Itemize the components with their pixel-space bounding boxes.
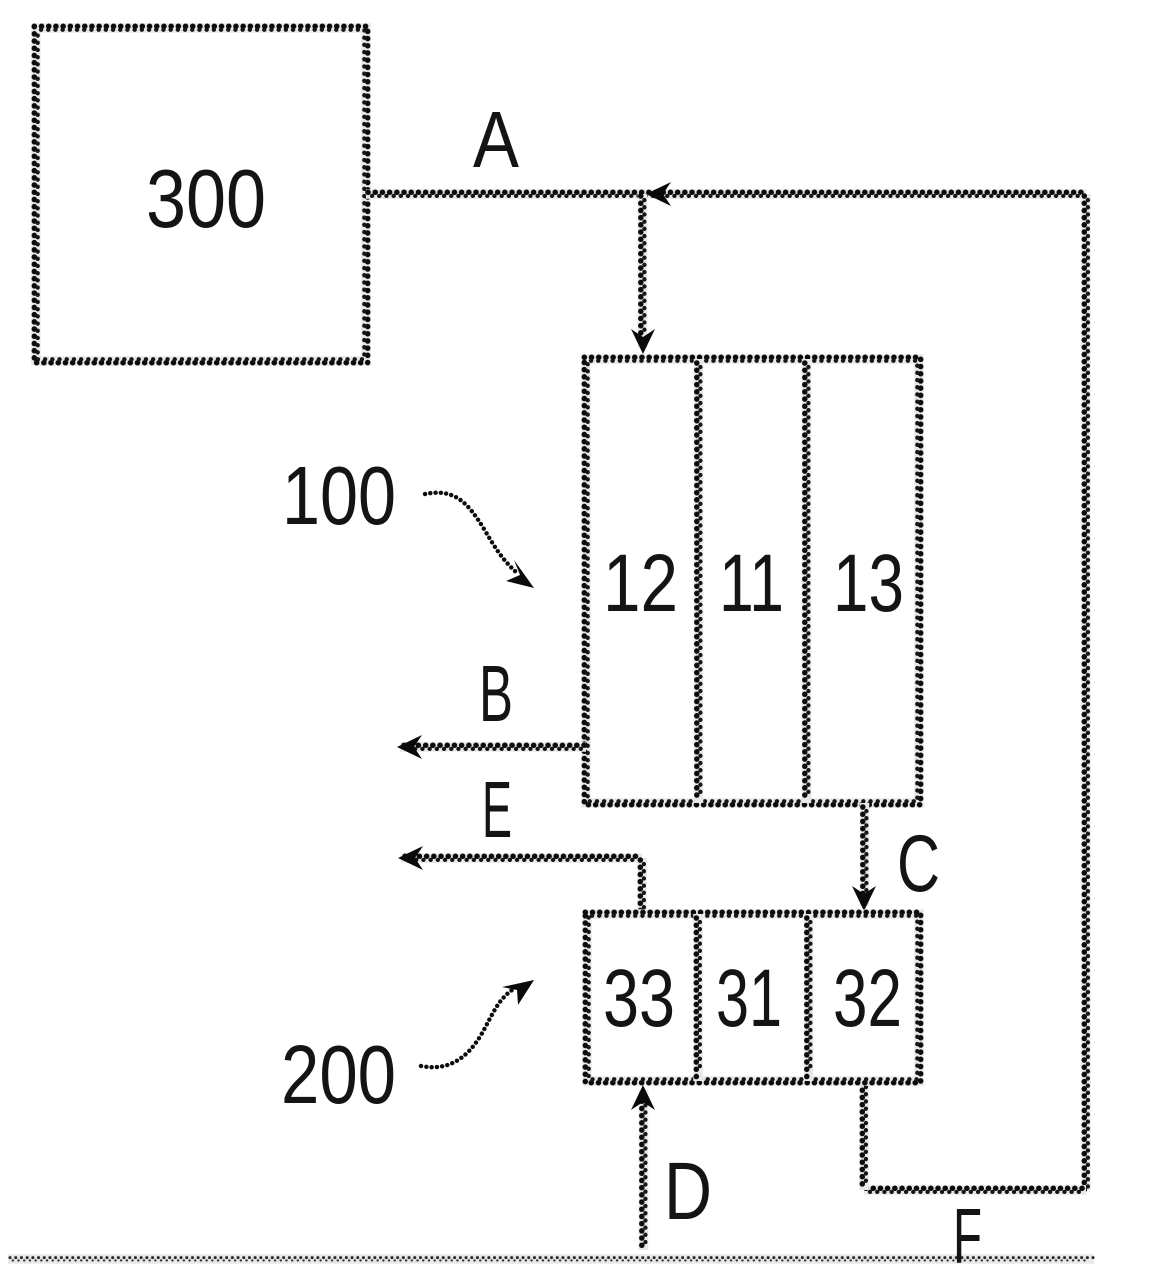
arrowhead down into box 100 [631, 329, 655, 354]
arrowhead of 100 leader [506, 560, 534, 588]
arrowhead left wire E [398, 846, 423, 870]
svg-text:12: 12 [603, 538, 678, 629]
box 100 outer [584, 357, 920, 804]
wire C vertical from box 100 down to box 200 [863, 803, 867, 906]
svg-text:32: 32 [833, 953, 902, 1044]
box 200 divider 2 [807, 914, 811, 1081]
svg-text:31: 31 [716, 953, 782, 1044]
wire F vertical from box 200 bottom [862, 1081, 866, 1190]
svg-text:A: A [473, 95, 520, 184]
svg-text:33: 33 [603, 953, 675, 1044]
svg-text:E: E [482, 765, 512, 854]
svg-text:B: B [479, 649, 513, 738]
svg-text:D: D [664, 1146, 712, 1237]
wire E horizontal [401, 856, 642, 860]
svg-text:300: 300 [146, 152, 266, 245]
wire A horizontal from box 300 to right vertical [366, 192, 1086, 196]
arrowhead left wire B [397, 735, 422, 759]
box 100 divider 1 [697, 359, 701, 803]
svg-text:100: 100 [282, 449, 396, 542]
arrowhead left on wire A at junction [646, 182, 671, 206]
wire E vertical elbow down to box 200 [640, 858, 644, 914]
box 100 divider 2 [805, 359, 809, 803]
wire right vertical (feedback) [1084, 194, 1088, 1190]
arrowhead down wire C [852, 886, 876, 911]
svg-text:F: F [953, 1192, 982, 1271]
leader squiggle from 200 to box 200 [421, 990, 512, 1067]
leader squiggle from 100 to box 100 [425, 493, 516, 572]
box 200 divider 1 [696, 914, 700, 1081]
wire B horizontal out of box 100 [400, 745, 586, 749]
svg-text:11: 11 [719, 538, 784, 629]
box 200 outer [585, 912, 920, 1082]
svg-text:13: 13 [833, 538, 904, 629]
wire F bottom horizontal [864, 1188, 1086, 1192]
svg-text:200: 200 [281, 1028, 396, 1121]
wire bottom page line [8, 1258, 1094, 1261]
arrowhead of 200 leader [502, 980, 534, 1005]
wire junction vertical from A line into box 100 [641, 194, 645, 348]
svg-text:C: C [897, 819, 940, 909]
arrowhead up wire D [631, 1085, 655, 1110]
box 300 [34, 26, 367, 362]
wire D vertical from bottom up into box 200 [642, 1090, 646, 1250]
